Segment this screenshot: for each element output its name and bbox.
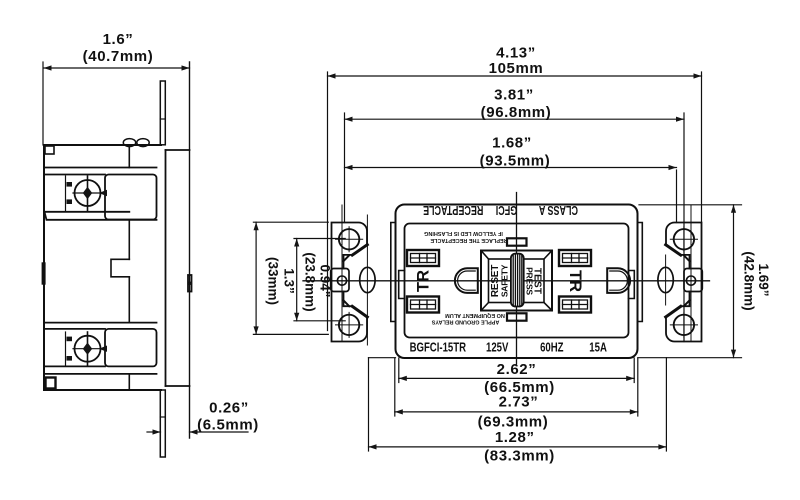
bottom terminal block outline	[45, 323, 157, 374]
center GFCI button module outer	[481, 251, 552, 311]
svg-text:(83.3mm): (83.3mm)	[484, 448, 555, 465]
lower-right outlet slot	[559, 297, 591, 313]
svg-text:SAFETY: SAFETY	[500, 264, 510, 297]
mid-right clip detail	[188, 275, 192, 283]
right ear center square	[684, 269, 702, 292]
dimension 0.26in (6.5mm)	[147, 431, 248, 433]
upper-right outlet slot	[559, 250, 591, 266]
svg-text:2.73”: 2.73”	[499, 393, 539, 410]
svg-text:BGFCI-15TR: BGFCI-15TR	[410, 341, 466, 355]
dimension 1.68in (93.5mm)	[345, 167, 677, 169]
svg-text:CLASS A: CLASS A	[539, 202, 578, 216]
left ear center square	[331, 269, 349, 292]
top terminal clamp plate	[105, 175, 157, 220]
vertical centerline	[516, 193, 518, 365]
svg-text:1.68”: 1.68”	[492, 134, 532, 151]
svg-text:0.26”: 0.26”	[209, 400, 249, 417]
svg-text:RECEPTACLE: RECEPTACLE	[423, 202, 483, 216]
face right edge / extension line	[189, 62, 191, 438]
center module inner	[489, 259, 545, 303]
upper-left outlet slot	[407, 250, 439, 266]
svg-text:60HZ: 60HZ	[540, 341, 564, 355]
svg-text:(69.3mm): (69.3mm)	[478, 413, 549, 430]
svg-text:0.94”: 0.94”	[318, 264, 333, 297]
front view: face plate outer outline	[396, 205, 638, 359]
svg-text:105mm: 105mm	[489, 60, 544, 77]
svg-text:125V: 125V	[486, 341, 509, 355]
dimension 2.62in (66.5mm)	[399, 377, 634, 379]
body bottom edge	[44, 389, 161, 391]
right ear oval slot	[658, 267, 673, 292]
svg-text:(40.7mm): (40.7mm)	[83, 48, 154, 65]
svg-text:(42.8mm): (42.8mm)	[742, 251, 757, 310]
indicator window bottom	[507, 313, 527, 320]
mounting screw heads on body top	[123, 139, 135, 147]
svg-text:NO EQUIPMENT ALUM: NO EQUIPMENT ALUM	[445, 312, 505, 318]
right ear center hole	[686, 276, 695, 285]
inner cover left bump	[399, 271, 405, 299]
left ear top screw hole	[339, 229, 359, 249]
svg-text:TR: TR	[566, 270, 584, 292]
svg-text:1.3”: 1.3”	[282, 268, 297, 294]
dimension 1.69in (42.8mm) right	[639, 205, 742, 358]
dimension 3.81in (96.8mm)	[345, 118, 685, 120]
right ground hole (D shape)	[607, 268, 630, 293]
svg-text:(23.8mm): (23.8mm)	[303, 252, 318, 311]
left ground hole (D shape)	[455, 268, 478, 293]
front view: inner raised cover	[405, 224, 629, 338]
bottom terminal screw	[75, 336, 101, 362]
svg-text:(96.8mm): (96.8mm)	[481, 104, 552, 121]
body back (left) edge	[43, 145, 45, 390]
lower-left outlet slot	[407, 297, 439, 313]
inner cover right bump	[629, 271, 635, 299]
svg-text:PRESS: PRESS	[525, 267, 535, 295]
svg-text:(33mm): (33mm)	[266, 257, 281, 305]
svg-text:3.81”: 3.81”	[494, 87, 534, 104]
right ear bottom screw hole	[674, 315, 694, 335]
left ear bottom screw hole	[339, 315, 359, 335]
top-left notch	[45, 146, 54, 154]
svg-text:(6.5mm): (6.5mm)	[197, 417, 259, 434]
dimension 2.73in (69.3mm)	[395, 411, 638, 413]
top terminal block outline	[45, 168, 157, 220]
svg-text:2.62”: 2.62”	[497, 361, 537, 378]
extension lines bottom dims	[369, 358, 742, 451]
body top edge	[44, 144, 161, 146]
svg-text:GFCI: GFCI	[496, 202, 517, 216]
svg-text:REPLACE THE RECEPTACLE: REPLACE THE RECEPTACLE	[430, 237, 508, 243]
svg-text:APPLE GROUND RELAYS: APPLE GROUND RELAYS	[431, 318, 499, 324]
svg-text:(93.5mm): (93.5mm)	[480, 153, 551, 170]
horizontal centerline	[303, 280, 710, 282]
indicator window top	[507, 238, 527, 245]
dimension 1.28in (83.3mm)	[369, 446, 667, 448]
right ear thick bevels	[666, 245, 681, 255]
face plate (side)	[166, 150, 190, 386]
dimension 0.94in (23.8mm) left	[294, 239, 345, 321]
svg-text:1.69”: 1.69”	[756, 263, 771, 296]
left ear thick bevels	[352, 245, 367, 255]
svg-text:15A: 15A	[589, 341, 607, 355]
strap upper plaster ear	[160, 81, 165, 145]
center striped capsule	[511, 254, 524, 307]
dimension 1.6in (40.7mm)	[43, 62, 190, 145]
svg-text:4.13”: 4.13”	[496, 45, 536, 62]
left ear oval slot	[360, 267, 375, 292]
svg-text:IF YELLOW LED IS FLASHING: IF YELLOW LED IS FLASHING	[424, 230, 503, 236]
left mounting ear outline	[332, 223, 368, 342]
dimension 1.3in (33mm) left	[253, 222, 328, 334]
side view: receptacle body outline	[44, 145, 161, 390]
right mounting ear outline	[666, 223, 702, 342]
bottom screw phillips marks	[67, 337, 108, 361]
extension lines top dims	[328, 72, 702, 342]
right body edge behind ear	[638, 223, 643, 322]
svg-text:TR: TR	[415, 270, 433, 292]
svg-text:1.6”: 1.6”	[103, 31, 134, 48]
mid-left tab	[42, 263, 45, 284]
module corner bevels	[481, 251, 552, 311]
top screw phillips marks	[67, 182, 108, 204]
left body edge behind ear	[391, 223, 396, 322]
bottom-left notch	[46, 378, 56, 389]
bottom terminal clamp plate	[105, 329, 157, 367]
svg-text:1.28”: 1.28”	[495, 429, 535, 446]
left ear center hole	[337, 276, 346, 285]
strap lower plaster ear	[160, 390, 165, 457]
top terminal screw	[75, 180, 101, 206]
right ear top screw hole	[674, 229, 694, 249]
dimension 4.13in / 105mm	[328, 75, 702, 77]
body front vertical line with notch	[111, 145, 129, 390]
